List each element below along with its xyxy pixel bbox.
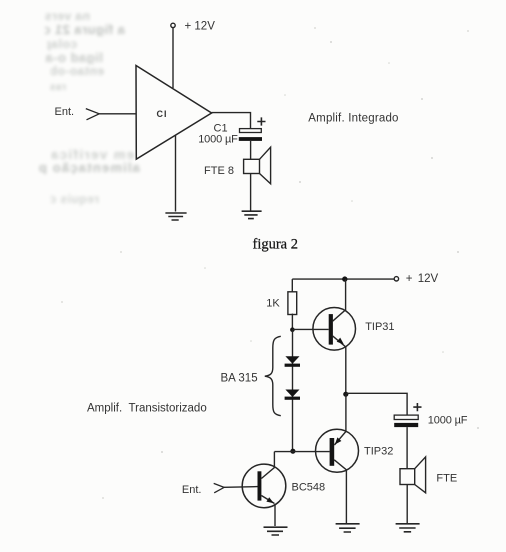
transistor Q2 TIP32 [316, 394, 359, 523]
svg-text:Ent.: Ent. [55, 106, 75, 118]
svg-text:FTE 8: FTE 8 [204, 165, 234, 177]
svg-text:FTE: FTE [436, 473, 457, 485]
input arrow (Ent., top circuit) [86, 109, 99, 120]
wire: C2 to speaker FTE [406, 427, 408, 469]
label BC548 [292, 481, 326, 493]
label +12V (top) [185, 21, 216, 33]
speaker FTE (bottom circuit) [400, 457, 426, 493]
label BA 315 [221, 372, 258, 384]
label Ent. (bottom) [182, 484, 202, 496]
label FTE 8 [204, 165, 234, 177]
caption figura 2 [253, 237, 299, 253]
wire: diode chain [292, 330, 294, 452]
label 1000 uF (top) [198, 134, 238, 146]
junction (R1 / TIP31 base / diodes) [290, 327, 295, 332]
svg-text:TIP31: TIP31 [365, 321, 394, 333]
faint reverse-side bleed-through text [44, 11, 90, 23]
svg-text:+ 12V: + 12V [185, 21, 216, 33]
wire: op-amp output to capacitor C1 [212, 113, 251, 129]
wire: C1 to speaker FTE 8 [250, 141, 252, 159]
+12V terminal (top circuit) [171, 23, 175, 27]
wire: speaker to ground [250, 174, 252, 211]
capacitor C2 1000uF [394, 415, 418, 427]
capacitor C1 [239, 129, 262, 141]
transistor Q1 TIP31 [313, 279, 356, 394]
svg-text:Ent.: Ent. [182, 484, 202, 496]
junction (rail / TIP31 collector) [342, 276, 347, 281]
plus polarity mark (C2) [413, 403, 421, 411]
wire: rail to resistor R1 [291, 279, 293, 292]
svg-text:1000 µF: 1000 µF [428, 415, 468, 427]
wire: +12V rail [292, 278, 394, 280]
wire: resistor to base node [291, 314, 293, 330]
svg-text:CI: CI [157, 109, 168, 119]
transistor Q3 BC548 [242, 452, 286, 526]
label 1K [266, 298, 280, 310]
wire: BC548 collector to TIP32 base [274, 451, 329, 453]
wire: emitter node to capacitor C2 [346, 393, 407, 415]
ground (speaker, bottom circuit) [396, 524, 420, 532]
op-amp U1 (CI) triangle [136, 66, 212, 160]
svg-text:+ 12V: + 12V [406, 273, 439, 285]
label FTE (bottom) [436, 473, 457, 485]
label CI [157, 109, 168, 119]
wire: speaker to ground [406, 485, 408, 524]
svg-text:1K: 1K [266, 298, 280, 310]
svg-text:Amplif. Transistorizado: Amplif. Transistorizado [87, 402, 207, 414]
resistor R1 1K [288, 292, 297, 315]
svg-text:1000 µF: 1000 µF [198, 134, 238, 146]
brace (BA 315 pair) [265, 336, 281, 415]
plus polarity mark (C1) [257, 117, 265, 125]
ground (op-amp) [165, 213, 186, 220]
svg-text:BC548: BC548 [292, 481, 326, 493]
wire: op-amp bottom to ground [175, 135, 177, 211]
diode D1 (BA 315) [285, 356, 300, 367]
wire: +12V supply to op-amp top [172, 28, 174, 88]
svg-text:TIP32: TIP32 [364, 446, 393, 458]
junction (emitter node / output) [343, 392, 348, 397]
label TIP32 [364, 446, 393, 458]
label Ent. (top) [55, 106, 75, 118]
+12V terminal (bottom circuit) [394, 277, 398, 281]
label Amplif. Transistorizado [87, 402, 207, 414]
ground (BC548) [264, 527, 288, 535]
label +12V (bottom) [406, 273, 439, 285]
ground (TIP32) [336, 524, 360, 532]
label 1000 uF (bottom) [428, 415, 468, 427]
svg-text:figura 2: figura 2 [253, 237, 299, 253]
wire: input to BC548 base [224, 486, 257, 489]
speaker FTE 8 [244, 147, 271, 184]
label Amplif. Integrado [308, 112, 398, 124]
junction (diodes / BC548 collector / TIP32 base) [290, 449, 295, 454]
ground (speaker, top circuit) [242, 211, 262, 218]
diode D2 (BA 315) [285, 390, 300, 400]
svg-text:BA 315: BA 315 [221, 372, 258, 384]
wire: input to op-amp [99, 113, 136, 115]
label C1 [214, 123, 228, 135]
svg-text:Amplif. Integrado: Amplif. Integrado [308, 112, 398, 124]
input arrow (Ent., bottom circuit) [214, 483, 224, 492]
wire: base node to TIP31 [293, 328, 329, 330]
label TIP31 [365, 321, 394, 333]
